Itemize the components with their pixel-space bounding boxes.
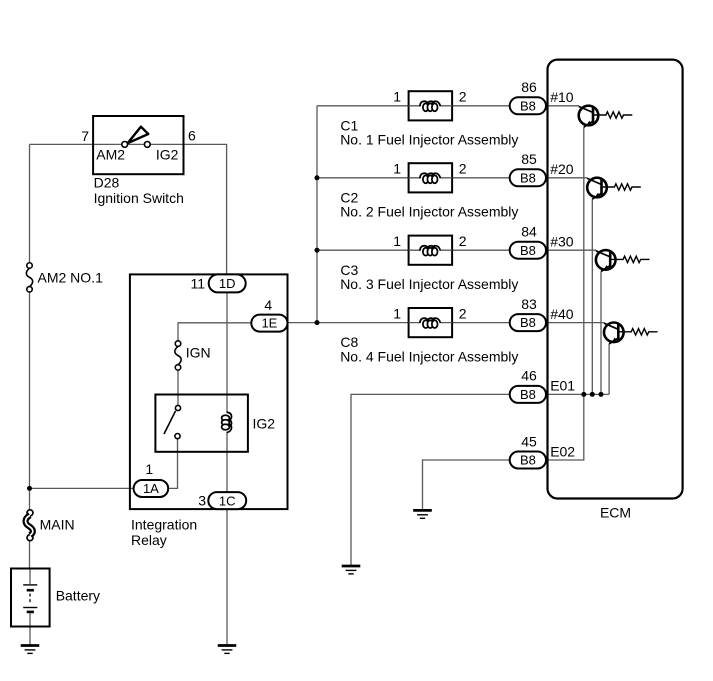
svg-text:B8: B8 bbox=[520, 170, 536, 185]
svg-text:B8: B8 bbox=[520, 453, 536, 468]
ECM connector B8 pin 45 bbox=[510, 452, 546, 469]
svg-text:ECM: ECM bbox=[600, 505, 631, 521]
wire: through injector C3 box bbox=[409, 249, 453, 251]
wire: ignition switch AM2 feed (left vertical from switch to battery) bbox=[30, 144, 94, 262]
svg-text:83: 83 bbox=[521, 296, 537, 312]
wire: injector No.3 row bbox=[317, 249, 596, 251]
svg-text:3: 3 bbox=[198, 493, 206, 509]
svg-text:Relay: Relay bbox=[131, 532, 167, 548]
svg-text:Integration: Integration bbox=[131, 516, 197, 532]
node: Q3 emitter on E01 bbox=[599, 392, 604, 397]
injector C1 coil bbox=[420, 101, 440, 111]
svg-text:B8: B8 bbox=[520, 387, 536, 402]
wire: through ignition switch box bbox=[93, 143, 183, 145]
ground: integration relay 1C bbox=[218, 646, 237, 654]
node: Q1 emitter / E02 on E01 bbox=[581, 392, 586, 397]
wire: injector supply bus vertical bbox=[316, 106, 318, 323]
relay coil IG2 bbox=[222, 412, 232, 432]
resistor R4 bbox=[618, 329, 657, 335]
svg-text:1A: 1A bbox=[143, 481, 159, 496]
wire: ignition switch IG2 to relay 1D bbox=[184, 144, 227, 274]
integration relay box bbox=[130, 274, 288, 509]
svg-text:IG2: IG2 bbox=[156, 147, 179, 163]
svg-text:84: 84 bbox=[521, 224, 537, 240]
transistor Q2 bbox=[587, 178, 607, 199]
wire: injector No.1 row bbox=[317, 105, 579, 107]
injector C2 coil bbox=[420, 173, 440, 183]
node: Q2 emitter on E01 bbox=[590, 392, 595, 397]
svg-text:2: 2 bbox=[459, 305, 467, 321]
node: battery branch to 1A bbox=[27, 486, 32, 491]
svg-text:D28: D28 bbox=[94, 175, 120, 191]
node: bus to injector No.2 bbox=[315, 175, 320, 180]
svg-text:1D: 1D bbox=[219, 276, 236, 291]
relay switch lever bbox=[164, 411, 176, 434]
svg-text:46: 46 bbox=[521, 368, 537, 384]
node: bus to injector No.4 bbox=[315, 320, 320, 325]
svg-text:No. 2 Fuel Injector Assembly: No. 2 Fuel Injector Assembly bbox=[340, 204, 518, 220]
transistor Q1 bbox=[579, 106, 599, 127]
svg-text:1: 1 bbox=[393, 305, 401, 321]
ECM connector B8 pin 85 bbox=[510, 169, 546, 186]
relay terminal 1E bbox=[251, 315, 287, 332]
wire: MAIN link to battery bbox=[29, 541, 31, 569]
wire: injector No.2 row bbox=[317, 177, 588, 179]
svg-text:1: 1 bbox=[145, 461, 153, 477]
wire: transistor Q1 emitter to E01 bbox=[583, 127, 585, 394]
wire: transistor Q2 emitter to E01 bbox=[591, 199, 593, 394]
injector C3 box bbox=[409, 236, 453, 265]
wire: battery internal leads and to ground bbox=[29, 569, 31, 646]
svg-text:E01: E01 bbox=[550, 378, 575, 394]
fuse AM2 NO.1 bbox=[26, 263, 32, 292]
fusible link MAIN bbox=[27, 510, 33, 516]
wire: relay 1E to IGN fuse bbox=[178, 323, 251, 341]
relay terminal 1D bbox=[209, 274, 246, 292]
resistor R3 bbox=[610, 256, 649, 262]
wire: transistor Q4 emitter to E01 bbox=[608, 344, 610, 395]
svg-text:Battery: Battery bbox=[56, 587, 100, 603]
wire: branch to relay 1A bbox=[30, 487, 135, 489]
wire: E01 to ground bbox=[351, 394, 510, 565]
svg-text:85: 85 bbox=[521, 151, 537, 167]
svg-text:6: 6 bbox=[188, 128, 196, 144]
fuse IGN bbox=[175, 341, 181, 370]
wire: E02 internal link to E01 bbox=[546, 394, 584, 460]
wire: relay switch to 1A terminal bbox=[168, 439, 178, 489]
battery plates bbox=[23, 584, 37, 586]
svg-text:7: 7 bbox=[81, 128, 89, 144]
svg-text:B8: B8 bbox=[520, 243, 536, 258]
injector C1 box bbox=[409, 91, 453, 120]
ignition switch contact AM2 bbox=[122, 142, 128, 148]
wire: E01 internal emitter bus bbox=[546, 393, 609, 395]
transistor Q3 bbox=[596, 250, 616, 271]
svg-text:2: 2 bbox=[459, 89, 467, 105]
wire: IGN fuse to relay switch contact bbox=[177, 370, 179, 405]
relay terminal 1C bbox=[208, 492, 246, 509]
svg-text:No. 1 Fuel Injector Assembly: No. 1 Fuel Injector Assembly bbox=[340, 132, 518, 148]
svg-text:No. 3 Fuel Injector Assembly: No. 3 Fuel Injector Assembly bbox=[340, 276, 518, 292]
svg-text:B8: B8 bbox=[520, 98, 536, 113]
ECM connector B8 pin 83 bbox=[510, 314, 546, 331]
svg-text:2: 2 bbox=[459, 233, 467, 249]
svg-text:AM2: AM2 bbox=[96, 147, 125, 163]
svg-text:1C: 1C bbox=[219, 493, 236, 508]
svg-text:Ignition Switch: Ignition Switch bbox=[94, 190, 184, 206]
wire: relay 1C to ground bbox=[226, 509, 228, 646]
svg-text:MAIN: MAIN bbox=[40, 517, 75, 533]
svg-text:4: 4 bbox=[264, 297, 272, 313]
wire: through injector C8 box bbox=[409, 322, 453, 324]
svg-text:#20: #20 bbox=[550, 161, 574, 177]
svg-text:#40: #40 bbox=[550, 306, 574, 322]
relay terminal 1A bbox=[134, 480, 169, 497]
svg-text:45: 45 bbox=[521, 433, 537, 449]
wire: fuse AM2 NO.1 to MAIN link bbox=[29, 292, 31, 510]
svg-text:#10: #10 bbox=[550, 89, 574, 105]
ignition switch key lever bbox=[128, 127, 149, 144]
svg-text:#30: #30 bbox=[550, 234, 574, 250]
svg-text:E02: E02 bbox=[550, 443, 575, 459]
relay switch contacts bbox=[175, 405, 180, 410]
wire: through injector C1 box bbox=[409, 105, 453, 107]
ECM connector B8 pin 86 bbox=[510, 97, 546, 114]
svg-text:86: 86 bbox=[521, 79, 537, 95]
wire: transistor Q3 emitter to E01 bbox=[600, 272, 602, 395]
svg-text:2: 2 bbox=[459, 161, 467, 177]
svg-text:B8: B8 bbox=[520, 315, 536, 330]
svg-text:1: 1 bbox=[393, 161, 401, 177]
injector C8 box bbox=[409, 308, 453, 337]
injector C2 box bbox=[409, 163, 453, 192]
svg-text:IGN: IGN bbox=[186, 345, 211, 361]
ground: battery bbox=[21, 646, 40, 654]
svg-text:AM2 NO.1: AM2 NO.1 bbox=[38, 270, 104, 286]
injector C3 coil bbox=[420, 246, 440, 256]
svg-text:IG2: IG2 bbox=[253, 415, 276, 431]
svg-text:11: 11 bbox=[190, 275, 205, 291]
svg-text:No. 4 Fuel Injector Assembly: No. 4 Fuel Injector Assembly bbox=[340, 348, 518, 364]
svg-text:1: 1 bbox=[393, 89, 401, 105]
ECM connector B8 pin 46 bbox=[510, 386, 546, 403]
resistor R1 bbox=[593, 112, 632, 118]
transistor Q4 bbox=[604, 323, 624, 344]
node: bus to injector No.3 bbox=[315, 248, 320, 253]
svg-text:1: 1 bbox=[393, 233, 401, 249]
battery box bbox=[11, 569, 50, 627]
ground: E01 bbox=[342, 566, 361, 574]
relay internal box (relay element) bbox=[155, 395, 248, 452]
ECM connector B8 pin 84 bbox=[510, 242, 546, 259]
ground: E02 bbox=[413, 510, 432, 518]
resistor R2 bbox=[602, 184, 641, 190]
wire: E02 to ground bbox=[423, 460, 510, 510]
ignition switch D28 box bbox=[93, 116, 183, 174]
ECM box bbox=[548, 60, 683, 499]
wire: relay 1E output to injector bus and injector No.4 row bbox=[288, 322, 605, 324]
svg-text:1E: 1E bbox=[261, 316, 277, 331]
wire: through injector C2 box bbox=[409, 177, 453, 179]
injector C8 coil bbox=[420, 318, 440, 328]
wire: relay internal vertical 1D to coil to 1C bbox=[226, 293, 228, 493]
ignition switch contact IG2 bbox=[144, 142, 150, 148]
